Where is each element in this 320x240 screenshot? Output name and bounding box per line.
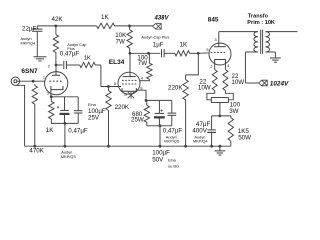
svg-text:10W: 10W (231, 79, 244, 86)
svg-text:MKP/QS: MKP/QS (61, 154, 77, 159)
svg-text:1024V: 1024V (270, 80, 289, 87)
svg-text:MKP/QS: MKP/QS (164, 138, 180, 143)
svg-text:220K: 220K (115, 104, 130, 111)
svg-text:2: 2 (48, 64, 51, 69)
svg-text:1K: 1K (180, 42, 188, 49)
svg-text:3: 3 (47, 91, 50, 96)
svg-text:MKP/Q4: MKP/Q4 (21, 40, 37, 45)
svg-text:ou BG: ou BG (168, 163, 179, 168)
svg-text:470K: 470K (29, 148, 44, 155)
svg-text:1K: 1K (101, 14, 109, 21)
svg-text:MKP/Q4: MKP/Q4 (193, 138, 209, 143)
svg-text:220K: 220K (168, 85, 183, 92)
svg-text:1K: 1K (46, 127, 54, 134)
svg-text:Prim : 10K: Prim : 10K (247, 20, 275, 26)
svg-text:10W: 10W (198, 85, 211, 92)
svg-text:Elna: Elna (88, 102, 97, 107)
svg-text:EL34: EL34 (109, 59, 125, 66)
svg-text:1K: 1K (84, 55, 91, 61)
svg-text:Audyn Cap Plus: Audyn Cap Plus (141, 34, 169, 39)
svg-text:Elna: Elna (168, 157, 177, 162)
svg-text:2: 2 (210, 64, 213, 69)
svg-text:5: 5 (114, 81, 117, 86)
svg-text:25W: 25W (131, 117, 144, 124)
svg-text:6SN7: 6SN7 (21, 68, 38, 75)
svg-text:4: 4 (141, 76, 144, 81)
svg-text:845: 845 (208, 17, 219, 24)
svg-text:0,47µF: 0,47µF (60, 50, 80, 57)
svg-text:3W: 3W (229, 108, 238, 115)
svg-text:4: 4 (227, 63, 230, 68)
svg-text:42K: 42K (52, 16, 64, 23)
svg-text:7W: 7W (138, 60, 147, 67)
svg-text:22µF: 22µF (22, 26, 36, 33)
svg-text:7W: 7W (116, 39, 125, 46)
svg-text:Transfo: Transfo (248, 13, 269, 19)
svg-text:3: 3 (214, 37, 217, 42)
svg-text:50V: 50V (152, 156, 164, 163)
svg-text:0,47µF: 0,47µF (68, 127, 88, 134)
svg-text:25V: 25V (88, 115, 100, 122)
svg-text:1µF: 1µF (153, 42, 164, 49)
svg-text:438V: 438V (154, 16, 170, 22)
svg-text:50W: 50W (238, 135, 251, 142)
